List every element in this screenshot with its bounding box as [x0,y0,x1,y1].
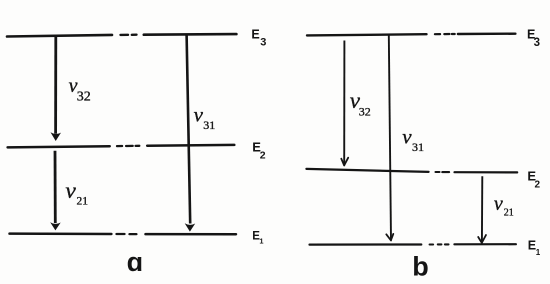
svg-text:2: 2 [535,180,541,191]
panel b: energy level line E3 (solid left segment) [307,34,427,35]
panel a: transition arrow nu31 head [185,223,196,231]
panel a: E3 line dash segments [121,34,137,37]
panel b: E2 line dash segments [436,171,450,173]
svg-text:31: 31 [412,140,424,154]
panel b: transition arrow nu21 (E2 to E1) shaft [481,176,483,243]
svg-text:31: 31 [203,118,215,132]
panel b: transition arrow nu21 open head [478,235,486,243]
svg-text:21: 21 [77,196,89,208]
panel b: transition arrow nu32 open head [341,158,348,166]
panel a: transition arrow nu21 head [50,222,61,230]
panel a: energy level line E3 (solid left segment) [7,35,112,37]
panel a: transition arrow nu32 (E3 to E2) shaft [54,36,57,134]
panel b: E1 line right solid segment [454,243,516,245]
svg-text:2: 2 [260,149,266,161]
svg-text:3: 3 [260,36,266,48]
panel b: transition arrow nu32 (E3 to E2) shaft [343,41,345,166]
svg-text:ν: ν [402,124,412,148]
panel a: transition arrow nu21 (E2 to E1) shaft [54,151,57,223]
panel b: energy level line E1 (solid left segment) [310,243,422,245]
svg-text:21: 21 [504,208,514,219]
panel b: energy level line E2 (solid left segment) [306,169,428,172]
panel a: energy level line E1 (solid left segment) [10,232,112,235]
panel b: transition arrow nu31 open head [386,234,393,241]
panel b: transition arrow nu31 (E3 to E1) shaft [389,34,391,240]
svg-text:b: b [412,251,429,281]
panel a: transition arrow nu31 (E3 to E1) shaft [187,35,191,224]
panel a: transition arrow nu32 head [51,132,62,141]
svg-text:ɑ: ɑ [127,247,144,277]
panel a: E1 line right solid segment [146,233,237,236]
svg-text:3: 3 [534,37,540,49]
svg-text:ν: ν [65,178,76,204]
svg-text:1: 1 [536,248,541,257]
panel a: E1 line dash segments [117,233,137,235]
panel a: E2 line dash segments [117,145,139,148]
svg-text:E: E [251,27,259,41]
svg-text:ν: ν [494,193,503,215]
svg-text:32: 32 [359,105,371,119]
panel b: E2 line right solid segment [455,171,518,173]
svg-text:32: 32 [77,89,91,104]
panel b: E3 line right solid segment [458,33,516,36]
svg-text:1: 1 [259,237,263,246]
panel b: E3 line dash segments [435,33,455,35]
panel a: E3 line right solid segment [144,33,237,36]
panel a: energy level line E2 (solid left segment) [8,146,110,147]
panel a: E2 line right solid segment [147,144,234,147]
svg-text:ν: ν [194,102,204,126]
panel b: E1 line dash segments [430,243,449,245]
